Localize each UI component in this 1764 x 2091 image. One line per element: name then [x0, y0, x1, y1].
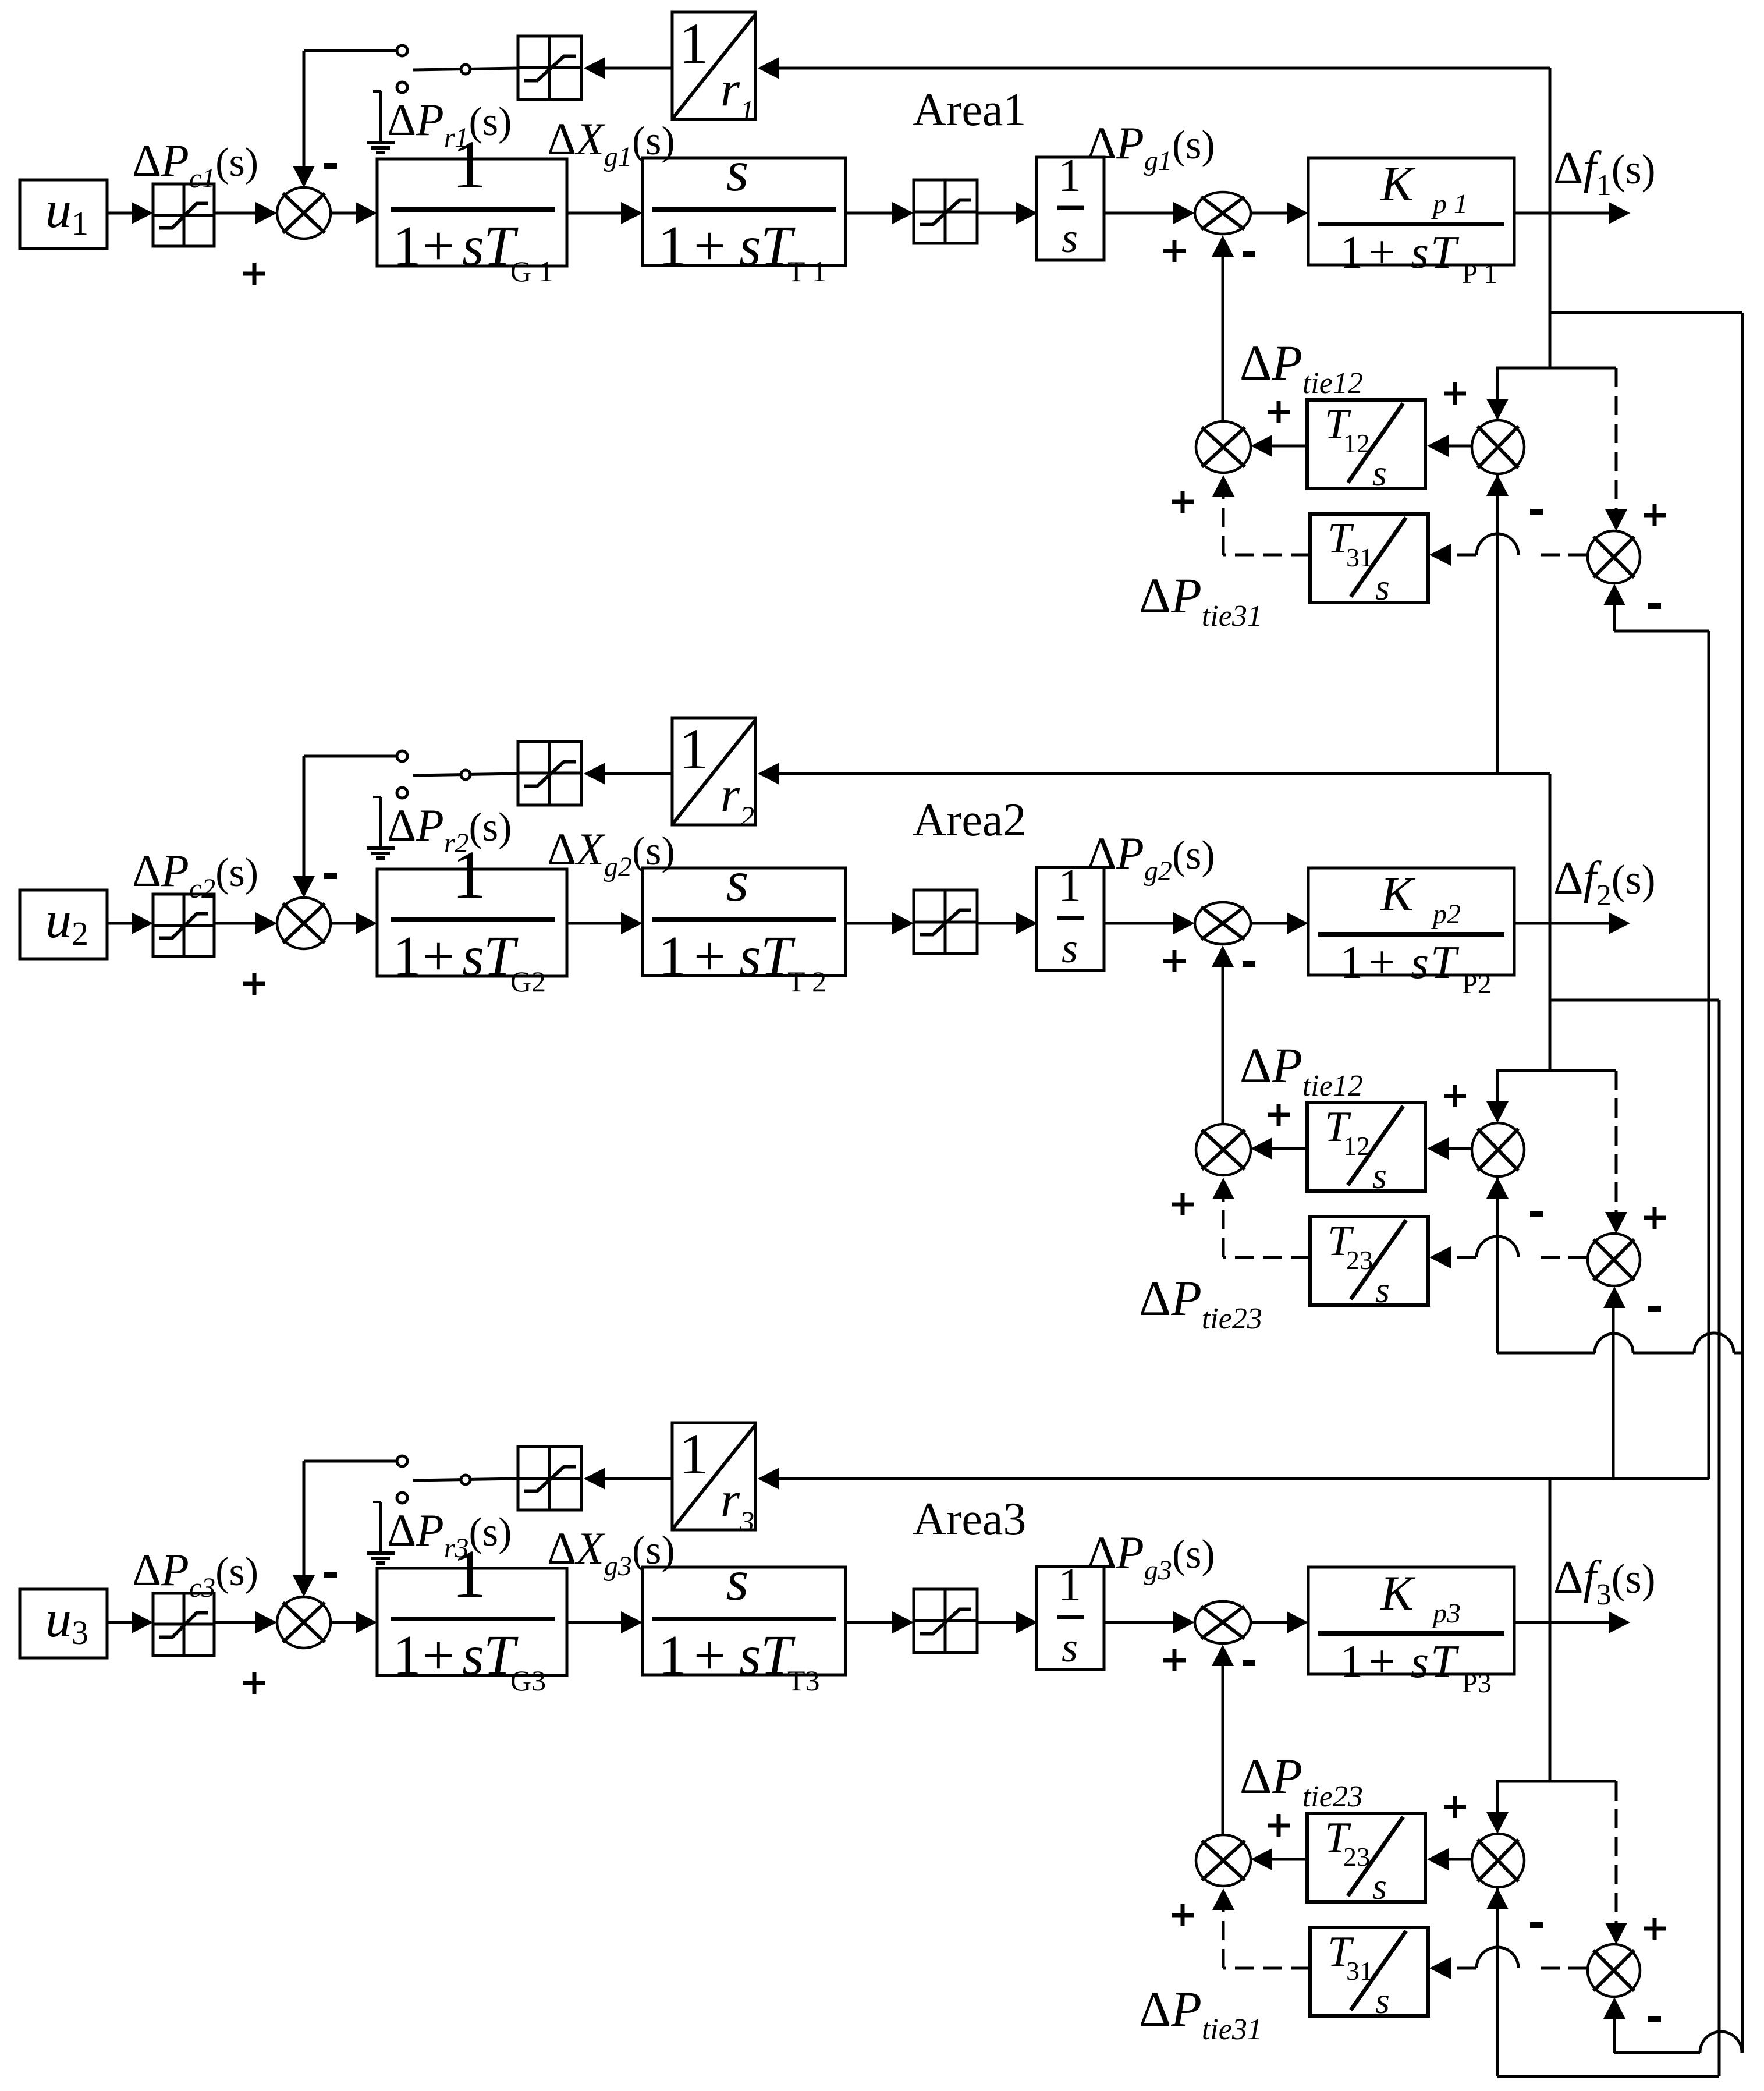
wire u3 to saturation SAT3a — [107, 1611, 153, 1633]
wire TS22 bottom down — [1496, 1177, 1499, 1353]
plus sign below TS11 — [1172, 491, 1194, 513]
dashed wire T23 to below TS21 — [1212, 1178, 1310, 1257]
switch lever pivot circle — [461, 1475, 470, 1484]
svg-text:1: 1 — [1058, 1560, 1081, 1611]
summing junction J21 — [277, 898, 331, 949]
tie block T31/s — [1310, 1927, 1428, 2021]
switch top wire — [304, 49, 397, 52]
wire 1/r2 to saturation SAT2b — [584, 763, 672, 785]
svg-text:s: s — [726, 139, 749, 203]
saturation block SAT1b — [518, 36, 581, 100]
arrowhead into TC1 bottom — [1603, 584, 1625, 605]
svg-text:1: 1 — [679, 11, 708, 76]
Area3 label — [913, 1494, 1026, 1545]
plus sign at TS12 top — [1444, 382, 1466, 405]
plus sign at J32 — [1163, 1649, 1186, 1671]
turbine block s/(1+sT_T 2) — [643, 849, 846, 998]
plus sign at TC2 top — [1644, 1207, 1666, 1229]
Area2 label — [913, 795, 1026, 846]
saturation block SAT2b — [518, 742, 581, 805]
arrowhead into TC2 bottom — [1603, 1287, 1625, 1308]
summing junction J11 — [277, 187, 331, 239]
saturation block SAT3c — [914, 1589, 977, 1653]
switch lever wire — [413, 774, 518, 775]
label dPtie23 lower — [1139, 1270, 1262, 1335]
switch terminal circle upper — [397, 45, 407, 56]
switch top wire — [304, 755, 397, 758]
summing junction J31 — [277, 1597, 331, 1648]
minus sign near TS32 bottom — [1530, 1922, 1543, 1928]
svg-text:s: s — [726, 1548, 749, 1612]
plus sign T12 into TS21 — [1268, 1104, 1290, 1126]
svg-text:s: s — [1062, 1624, 1078, 1671]
plus sign at TC1 top — [1644, 504, 1666, 526]
plus sign at TS32 top — [1444, 1796, 1466, 1818]
wire TS12 to T12 block — [1427, 435, 1472, 457]
dashed wire down into third junction TC2 — [1605, 1071, 1627, 1234]
label dPtie31 lower — [1139, 1981, 1262, 2046]
tie summing junction TS22 — [1472, 1123, 1524, 1176]
wire SAT2a to summing junction J21 — [214, 912, 277, 934]
wire T23 block to TS31 — [1251, 1848, 1307, 1870]
tie block T12/s — [1307, 1103, 1425, 1196]
wire down into TS12 top — [1486, 368, 1509, 420]
vertical df3 branch line x2663 area3 — [1549, 1479, 1552, 1781]
label dPtie23 upper — [1240, 1748, 1363, 1813]
label df2 — [1553, 853, 1656, 912]
third summing junction TC1 (dashed path) — [1588, 531, 1640, 583]
saturation block SAT1c — [914, 180, 977, 243]
wire T12 block to TS21 — [1251, 1137, 1307, 1160]
tie summing junction TS12 — [1472, 420, 1524, 474]
wire TC3 bottom elbow to x2994 with hop — [1614, 2019, 1742, 2053]
arrowhead into TS32 bottom — [1486, 1888, 1509, 1909]
wire TS12 bottom to area2 feedback line — [1496, 474, 1499, 774]
Area1 label — [913, 84, 1026, 136]
branch wire df1 to long vertical — [1550, 311, 1742, 314]
branch wire df2 to long vertical — [1550, 999, 1719, 1002]
plus sign T23 into TS31 — [1268, 1814, 1290, 1837]
label dPr1 — [387, 94, 512, 153]
minus sign at J21 — [324, 873, 337, 879]
wire tie sum TS31 up to J32 — [1212, 1645, 1234, 1835]
switch top wire — [304, 1460, 397, 1463]
svg-text:Area3: Area3 — [913, 1494, 1026, 1545]
saturation block SAT2c — [914, 890, 977, 954]
wire turbine to saturation SAT2c — [846, 912, 914, 934]
svg-text:s: s — [1375, 1980, 1390, 2021]
wire J11 to governor block — [331, 202, 377, 224]
long vertical df3 line x2936 — [1708, 631, 1710, 1479]
label dPr2 — [387, 800, 512, 859]
wire integrator to junction J32 — [1104, 1611, 1195, 1633]
minus sign at J31 — [324, 1572, 337, 1578]
svg-text:1: 1 — [679, 717, 708, 781]
arrowhead into TS12 bottom — [1486, 474, 1509, 496]
label df3 — [1553, 1552, 1656, 1611]
plus sign below TS21 — [1172, 1193, 1194, 1215]
droop block 1/r1 — [672, 11, 755, 127]
plus sign at J31 — [243, 1672, 265, 1694]
input block u1 — [20, 180, 107, 249]
label dPtie12 upper — [1240, 335, 1363, 400]
label dXg1 — [547, 114, 675, 172]
dashed wire TC1 to T31 block with hop over vertical — [1429, 534, 1588, 566]
label dPc2 — [132, 845, 258, 904]
output wire df3 — [1514, 1611, 1630, 1633]
minus sign at J22 — [1243, 961, 1255, 967]
wire SAT2c to integrator — [977, 912, 1038, 934]
tie entry wire from df2 branch — [1496, 1069, 1616, 1072]
svg-text:Area2: Area2 — [913, 795, 1026, 846]
wire governor to turbine block — [567, 202, 643, 224]
plus sign at TC3 top — [1644, 1918, 1666, 1940]
wire switch down to J31 — [293, 1461, 315, 1597]
third summing junction TC3 (dashed path) — [1588, 1944, 1640, 1997]
wire tie sum TS21 up to J22 — [1212, 945, 1234, 1124]
switch lever wire — [413, 1479, 518, 1480]
wire turbine to saturation SAT3c — [846, 1611, 914, 1633]
ground symbol — [367, 1502, 395, 1563]
plus sign at J22 — [1163, 950, 1186, 972]
feedback wire into 1/r1 block — [758, 57, 1550, 79]
ground symbol — [367, 91, 395, 153]
output wire df2 — [1514, 912, 1630, 934]
wire governor to turbine block — [567, 912, 643, 934]
dashed wire down into third junction TC3 — [1605, 1781, 1627, 1944]
tie summing junction TS31 — [1196, 1835, 1251, 1886]
tie entry wire from df1 branch — [1496, 367, 1616, 370]
label dPc1 — [132, 135, 258, 194]
wire SAT3c to integrator — [977, 1611, 1038, 1633]
vertical df2 branch line x2663 area2 — [1549, 774, 1552, 1071]
switch lever wire — [413, 68, 518, 70]
input block u3 — [20, 1589, 107, 1658]
wire switch down to J11 — [293, 51, 315, 187]
label dPc3 — [132, 1544, 258, 1603]
minus sign at TC2 bottom — [1648, 1306, 1661, 1312]
saturation block SAT3a — [153, 1593, 214, 1656]
wire SAT3a to summing junction J31 — [214, 1611, 277, 1633]
wire J22 to power system block — [1251, 912, 1308, 934]
svg-text:s: s — [726, 849, 749, 913]
wire tie sum TS11 up to J12 — [1212, 235, 1234, 421]
plus sign at J11 — [243, 263, 265, 285]
row3 feedback extension to x2936 — [1550, 1477, 1709, 1480]
wire 1/r1 to saturation SAT1b — [584, 57, 672, 79]
svg-text:s: s — [1062, 925, 1078, 972]
saturation block SAT3b — [518, 1447, 581, 1510]
svg-text:s: s — [1375, 566, 1390, 608]
wire TS32 to T23 block — [1427, 1848, 1472, 1870]
plus sign below TS31 — [1172, 1904, 1194, 1926]
integrator block 1/s — [1037, 150, 1104, 261]
long vertical df1 line x2994 — [1741, 313, 1744, 2053]
plus sign at J21 — [243, 973, 265, 995]
dashed wire TC2 to T23 block with hop over vertical — [1429, 1236, 1588, 1268]
turbine block s/(1+sT_T3) — [643, 1548, 846, 1697]
tie block T23/s — [1307, 1813, 1425, 1907]
integrator block 1/s — [1037, 860, 1104, 972]
arrowhead into TC3 bottom — [1603, 1997, 1625, 2019]
ground symbol — [367, 797, 395, 858]
wire turbine to saturation SAT1c — [846, 202, 914, 224]
label df1 — [1553, 143, 1656, 202]
minus sign at J32 — [1243, 1660, 1255, 1666]
svg-text:s: s — [1375, 1269, 1390, 1310]
wire u2 to saturation SAT2a — [107, 912, 153, 934]
switch terminal circle lower — [397, 788, 407, 798]
wire T12 block to TS11 — [1251, 435, 1307, 457]
wire 1/r3 to saturation SAT3b — [584, 1468, 672, 1490]
tie entry wire from df3 branch — [1496, 1780, 1616, 1783]
minus sign near TS22 bottom — [1530, 1211, 1543, 1217]
governor block 1/(1+sT_G3) — [377, 1536, 567, 1697]
tie summing junction TS21 — [1196, 1124, 1251, 1175]
tie summing junction TS11 — [1196, 421, 1251, 473]
wire down into TS22 top — [1486, 1071, 1509, 1123]
droop block 1/r2 — [672, 717, 755, 832]
power system block K_p2/(1+sT_P2) — [1308, 867, 1514, 1000]
minus sign at J12 — [1243, 251, 1255, 257]
label dPg1 — [1087, 118, 1215, 176]
wire integrator to junction J22 — [1104, 912, 1195, 934]
saturation block SAT2a — [153, 894, 214, 956]
feedback wire into 1/r3 block — [758, 1468, 1550, 1490]
wire u1 to saturation SAT1a — [107, 202, 153, 224]
svg-text:s: s — [1372, 452, 1387, 494]
plus sign T12 into TS11 — [1268, 401, 1290, 423]
label dPr3 — [387, 1505, 512, 1564]
wire TS22 elbow to x2994 with hops — [1497, 1333, 1742, 1353]
wire TS32 bottom elbow to x2954 — [1497, 1888, 1719, 2076]
svg-text:1: 1 — [1058, 860, 1081, 912]
tie summing junction TS32 — [1472, 1834, 1524, 1887]
switch terminal circle lower — [397, 82, 407, 93]
tie block T23/s — [1310, 1217, 1428, 1310]
svg-text:1: 1 — [679, 1422, 708, 1486]
input block u2 — [20, 890, 107, 959]
switch lever pivot circle — [461, 65, 470, 74]
minus sign at TC1 bottom — [1648, 603, 1661, 609]
tie block T12/s — [1307, 400, 1425, 494]
minus sign at J11 — [324, 163, 337, 169]
governor block 1/(1+sT_G 1) — [377, 126, 567, 288]
svg-text:Area1: Area1 — [913, 84, 1026, 136]
plus sign at J12 — [1163, 240, 1186, 262]
droop block 1/r3 — [672, 1422, 755, 1537]
wire down into TS32 top — [1486, 1781, 1509, 1834]
wire integrator to junction J12 — [1104, 202, 1195, 224]
svg-text:s: s — [1062, 215, 1078, 261]
summing junction J12 — [1195, 192, 1251, 234]
wire SAT1a to summing junction J11 — [214, 202, 277, 224]
label dXg2 — [547, 824, 675, 883]
dashed wire T31 to below TS31 — [1212, 1888, 1310, 1968]
summing junction J32 — [1195, 1601, 1251, 1643]
switch terminal circle upper — [397, 1456, 407, 1466]
dashed wire TC3 to T31 block with hop over vertical — [1429, 1947, 1588, 1979]
power system block K_p 1/(1+sT_P 1) — [1308, 157, 1514, 289]
plus sign at TS22 top — [1444, 1085, 1466, 1107]
integrator block 1/s — [1037, 1560, 1104, 1671]
minus sign near TS12 bottom — [1530, 509, 1543, 515]
wire J21 to governor block — [331, 912, 377, 934]
feedback wire into 1/r2 block — [758, 763, 1550, 785]
governor block 1/(1+sT_G2) — [377, 837, 567, 998]
label dPtie12 upper — [1240, 1037, 1363, 1103]
wire TC1 bottom elbow — [1614, 605, 1709, 631]
svg-text:1: 1 — [1058, 150, 1081, 201]
dashed wire T31 to below TS11 — [1212, 475, 1310, 555]
label dPtie31 lower — [1139, 568, 1262, 633]
label dXg3 — [547, 1523, 675, 1582]
long vertical df2 line x2954 — [1718, 1000, 1721, 2076]
dashed wire down into third junction TC1 — [1605, 368, 1627, 531]
summing junction J22 — [1195, 902, 1251, 944]
label dPg3 — [1087, 1527, 1215, 1586]
vertical df1 branch line x2663 area1 — [1549, 68, 1552, 368]
tie block T31/s — [1310, 514, 1428, 608]
wire J12 to power system block — [1251, 202, 1308, 224]
label dPg2 — [1087, 828, 1215, 887]
output wire df1 — [1514, 202, 1630, 224]
wire SAT1c to integrator — [977, 202, 1038, 224]
wire J31 to governor block — [331, 1611, 377, 1633]
minus sign at TC3 bottom — [1648, 2016, 1661, 2022]
svg-text:s: s — [1372, 1866, 1387, 1907]
wire governor to turbine block — [567, 1611, 643, 1633]
wire TS22 to T12 block — [1427, 1137, 1472, 1160]
svg-text:s: s — [1372, 1155, 1387, 1196]
wire J32 to power system block — [1251, 1611, 1308, 1633]
saturation block SAT1a — [153, 184, 214, 246]
switch terminal circle upper — [397, 751, 407, 761]
power system block K_p3/(1+sT_P3) — [1308, 1566, 1514, 1699]
arrowhead into TS22 bottom — [1486, 1177, 1509, 1199]
switch lever pivot circle — [461, 770, 470, 779]
wire switch down to J21 — [293, 756, 315, 898]
wire TC2 bottom down to area3 feedback — [1612, 1308, 1615, 1479]
third summing junction TC2 (dashed path) — [1588, 1234, 1640, 1286]
turbine block s/(1+sT_T 1) — [643, 139, 846, 288]
switch terminal circle lower — [397, 1493, 407, 1503]
